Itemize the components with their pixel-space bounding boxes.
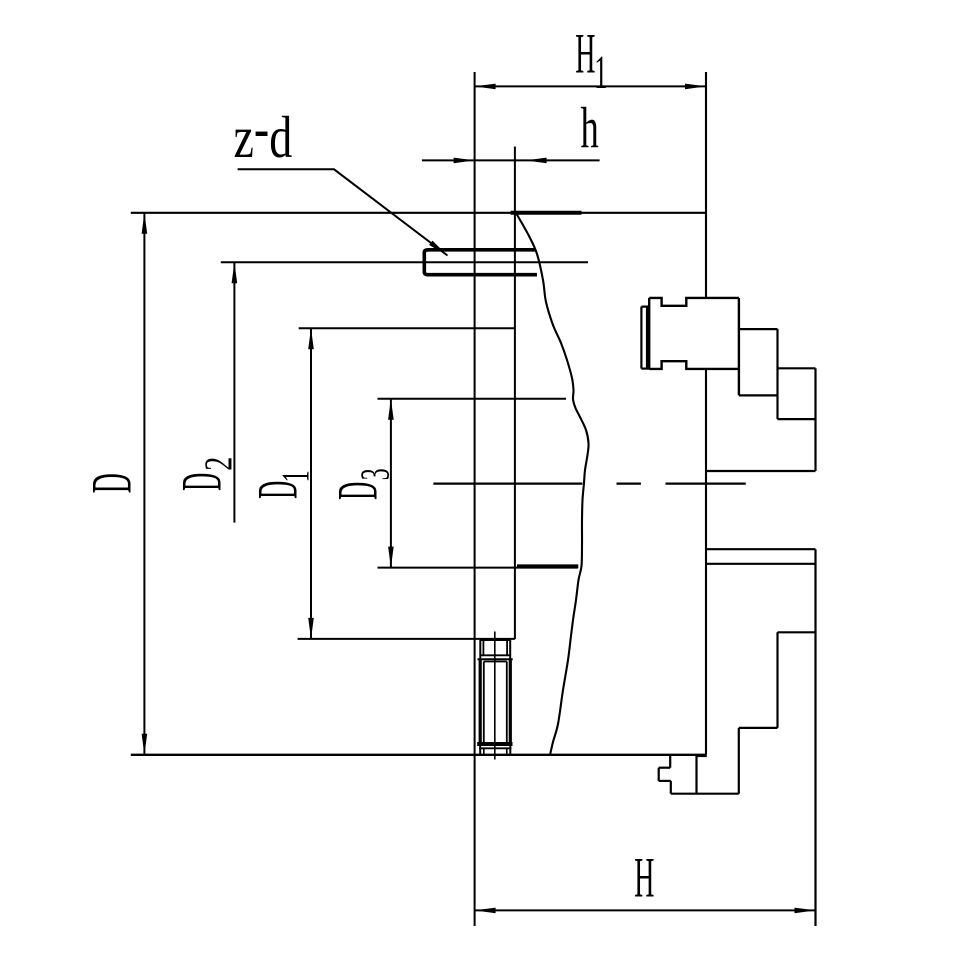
- arrowhead D1 bottom: [308, 618, 314, 639]
- arrowhead D bottom: [142, 734, 148, 755]
- svg-text:D: D: [326, 482, 389, 500]
- chuck body bottom edge (diameter D bottom): [131, 754, 706, 756]
- front face shelf edge: [706, 470, 816, 472]
- arrowhead H1 right: [685, 84, 706, 90]
- bore left wall / extension line: [474, 72, 476, 926]
- lower jaw nose top edge: [697, 755, 707, 757]
- upper jaw thin plate left wall: [640, 307, 642, 369]
- arrowhead D1 top: [308, 328, 314, 349]
- stud head inner chamfer lines: [483, 640, 507, 655]
- upper jaw thin plate right wall: [646, 307, 648, 369]
- svg-text:D: D: [170, 473, 233, 491]
- stud body outer thread walls: [480, 659, 510, 744]
- stud bottom side walls: [480, 744, 510, 755]
- lower jaw nose tab top: [659, 767, 671, 769]
- stud bottom thick line: [477, 742, 512, 746]
- chuck front face upper segment: [705, 72, 707, 298]
- dimension D2 extension line: [221, 261, 588, 263]
- arrowhead H1 left: [475, 84, 496, 90]
- lower jaw nose tab left: [658, 768, 660, 781]
- break wavy line: [516, 213, 589, 755]
- arrowhead h right (points left): [526, 158, 547, 164]
- svg-text:D: D: [80, 473, 143, 493]
- svg-text:3: 3: [353, 468, 398, 480]
- arrowhead leader z-d: [429, 241, 447, 256]
- svg-text:2: 2: [198, 457, 240, 471]
- dimension D1 line: [310, 328, 312, 639]
- leader line z-d: [238, 169, 448, 255]
- lower jaw nose tab bottom: [659, 780, 671, 782]
- horizontal centerline dash-dot: [433, 482, 745, 484]
- stud head outer walls: [480, 640, 510, 659]
- lower jaw bottom edge: [671, 793, 739, 795]
- upper jaw left edge: [648, 298, 650, 369]
- bolt hole slot z-d (thick outline): [424, 250, 537, 275]
- stud vertical centerline: [494, 632, 496, 760]
- stud thread top line: [484, 661, 507, 663]
- stud bottom thin line: [479, 747, 512, 749]
- arrowhead D2 top: [232, 262, 238, 283]
- lower jaw step2 left wall: [738, 728, 740, 794]
- arrowhead D3 bottom: [388, 547, 394, 568]
- svg-text:z-d: z-d: [234, 97, 293, 171]
- lower jaw plate bottom edge: [706, 563, 816, 565]
- stud head lower lines: [480, 654, 511, 656]
- bore bottom step with D1 lower extension: [298, 638, 515, 640]
- arrowhead H left: [475, 908, 496, 914]
- arrowhead h left (points right): [454, 158, 475, 164]
- upper jaw step2 top edge: [778, 367, 816, 369]
- chuck body top face thick edge: [511, 211, 582, 215]
- dimension D3 bottom extension line: [378, 567, 578, 569]
- lower jaw nose divider: [695, 755, 697, 794]
- lower jaw step2 bottom edge: [739, 727, 778, 729]
- upper jaw bottom edge with groove: [649, 361, 739, 369]
- dimension H1 line: [475, 85, 706, 87]
- stud body inner thread lines: [484, 662, 507, 745]
- stud shoulder line: [478, 658, 513, 660]
- bore shoulder thick edge: [517, 564, 578, 568]
- lower jaw plate top edge: [706, 548, 816, 550]
- stud bottom inner walls: [484, 748, 507, 755]
- lower jaw step edge: [778, 631, 816, 633]
- svg-text:1: 1: [275, 470, 318, 482]
- lower jaw nose left wall: [670, 781, 672, 794]
- chuck front face lower segment: [705, 369, 707, 755]
- upper jaw step1 right edge: [776, 329, 778, 419]
- lower jaw step left wall: [776, 632, 778, 728]
- svg-text:H: H: [575, 22, 595, 85]
- svg-text:1: 1: [594, 46, 607, 99]
- dimension D3 line: [390, 399, 392, 568]
- dimension H line: [475, 909, 816, 911]
- dimension D3 top extension line: [378, 398, 567, 400]
- upper jaw thin plate top edge: [641, 306, 649, 308]
- chuck body top extension edge (diameter D top): [131, 212, 706, 214]
- dimension D1 top extension line: [299, 327, 516, 329]
- dimension D2 line: [233, 262, 235, 522]
- lower jaw right edge and H right extension line: [814, 549, 816, 926]
- svg-text:h: h: [581, 97, 599, 160]
- arrowhead D3 top: [388, 399, 394, 420]
- svg-text:H: H: [634, 846, 654, 909]
- dimension h line: [422, 159, 600, 161]
- upper jaw step2 right edge: [814, 368, 816, 471]
- upper jaw top edge with groove: [649, 298, 739, 306]
- upper jaw right edge: [738, 298, 740, 396]
- svg-text:D: D: [246, 481, 309, 499]
- upper jaw step1 bottom edge: [739, 394, 778, 396]
- stud top edge: [480, 639, 511, 641]
- arrowhead H right: [795, 908, 816, 914]
- dimension D line: [143, 213, 145, 755]
- lower jaw nose top wall: [669, 755, 671, 768]
- upper jaw thin plate bottom edge: [641, 368, 649, 370]
- bore right wall / h extension line: [514, 147, 516, 640]
- upper jaw step2 bottom edge: [778, 418, 816, 420]
- upper jaw step1 top edge: [739, 328, 778, 330]
- arrowhead D top: [142, 213, 148, 234]
